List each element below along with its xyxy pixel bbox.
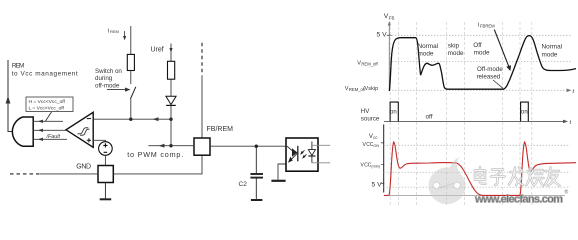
opto LED D3: [308, 142, 315, 163]
watermark logo: [429, 157, 466, 204]
leader line Off-mode released to curve: [493, 80, 503, 88]
svg-text:skip: skip: [448, 42, 460, 49]
5V label and tick: [377, 31, 392, 38]
VREM_on/Vskip label: [345, 86, 378, 92]
wire FB/REM to optocoupler: [210, 145, 286, 147]
VFB axis label: [384, 13, 395, 21]
annotation Normal mode 2: [542, 43, 563, 58]
svg-text:mode: mode: [542, 51, 558, 58]
svg-text:FB: FB: [389, 16, 395, 21]
wire gate middle input from comparator: [33, 129, 66, 132]
svg-text:5 V: 5 V: [377, 31, 388, 38]
svg-text:mode: mode: [474, 50, 490, 57]
annotation skip mode: [448, 42, 464, 57]
svg-text:cc: cc: [373, 135, 377, 140]
wire GND rail dashed left edge: [10, 173, 40, 175]
wire opto right pins: [312, 145, 330, 163]
dotted Vskip level / time axis with arrow: [389, 89, 574, 96]
svg-text:ON: ON: [373, 144, 379, 148]
wire feedback net solid to FB/REM: [201, 75, 203, 138]
resistor R2: [168, 61, 175, 79]
wire diode to minus line and down to PWM line: [170, 105, 172, 146]
junction dot Uref/minus: [169, 118, 172, 121]
capacitor C2: [250, 146, 263, 200]
annotation Off-mode released: [477, 66, 504, 80]
ground symbol opto: [271, 180, 285, 182]
wire resistor to diode: [170, 79, 172, 96]
HV baseline with arrow: [384, 120, 572, 126]
wire dashed feedback net: [201, 43, 203, 76]
gridlines: [390, 22, 532, 205]
svg-text:®: ®: [565, 189, 569, 196]
node REM label: [12, 63, 78, 78]
svg-text:www.elecfans.com: www.elecfans.com: [474, 193, 563, 205]
svg-text:Normal: Normal: [418, 43, 439, 50]
svg-text:FBREM: FBREM: [480, 24, 495, 29]
svg-text:off: off: [426, 114, 433, 121]
Vcc vertical axis: [383, 124, 385, 192]
dotted 5V level Vcc chart: [384, 186, 570, 188]
comparator plus pin: [87, 138, 91, 142]
svg-text:H = Vcc<Vcc_off: H = Vcc<Vcc_off: [29, 99, 66, 105]
VFB vertical axis: [388, 21, 391, 90]
wire comparator plus input: [93, 140, 105, 141]
svg-text:/Vskip: /Vskip: [363, 86, 378, 92]
watermark chinese text: [475, 167, 560, 186]
svg-text:5 V: 5 V: [372, 182, 383, 189]
svg-text:during: during: [95, 75, 113, 82]
Vcc axis label: [369, 134, 378, 140]
svg-text:C2: C2: [239, 181, 248, 188]
current source I1: [99, 142, 113, 156]
svg-text:Off: Off: [473, 42, 482, 49]
svg-text:to PWM comp.: to PWM comp.: [127, 150, 183, 159]
resistor R1: [127, 54, 134, 70]
wire gate top input: [33, 120, 63, 123]
svg-text:Uref: Uref: [151, 46, 164, 53]
junction dot C2: [255, 145, 258, 148]
dotted VREM_off level line: [389, 61, 572, 63]
VFB waveform: [389, 36, 576, 91]
svg-text:GND: GND: [76, 164, 91, 171]
svg-text:i: i: [108, 29, 109, 35]
svg-text:HV: HV: [361, 108, 370, 115]
svg-text:off-mode: off-mode: [95, 82, 120, 89]
wire resistor to switch: [130, 71, 132, 85]
light arrows: [300, 150, 306, 158]
ground symbol under GND block: [100, 183, 112, 200]
op-amp comparator U2: [66, 112, 93, 147]
VccON label: [363, 142, 380, 148]
wire switch to junction: [130, 99, 132, 119]
Vcc(min) label: [361, 163, 381, 169]
wire comparator minus input line: [93, 117, 171, 121]
dotted Vcc(min) level: [384, 171, 570, 173]
annotation Normal mode 1: [418, 43, 439, 58]
svg-text:REM: REM: [110, 29, 119, 34]
leader from comment box to wire: [46, 112, 52, 121]
svg-text:on: on: [390, 110, 397, 116]
opto photodiode D2: [287, 146, 298, 163]
Vcc time axis: [384, 195, 565, 197]
hysteresis symbol: [78, 128, 90, 135]
HV pulse 2: [521, 102, 529, 121]
node Uref label with arrow: [151, 44, 173, 54]
diode D1: [166, 96, 176, 105]
svg-text:to Vcc management: to Vcc management: [12, 70, 78, 77]
annotation switch on during off-mode: [95, 68, 131, 92]
svg-text:t: t: [570, 120, 572, 126]
junction dot iREM/minus: [129, 118, 132, 121]
wire iREM top: [130, 26, 132, 54]
switch S1 blade: [130, 87, 135, 99]
svg-text:/Fault: /Fault: [46, 134, 61, 140]
HV source label: [361, 108, 380, 122]
comment box Vcc thresholds: [26, 97, 73, 112]
junction dot Uref/PWM line: [169, 144, 172, 147]
annotation Off mode: [473, 42, 490, 57]
wire gate bottom input /Fault: [33, 138, 67, 141]
svg-text:FB/REM: FB/REM: [207, 126, 234, 133]
svg-text:mode: mode: [448, 50, 464, 57]
wire Uref to resistor: [170, 51, 172, 61]
svg-text:released: released: [477, 73, 501, 80]
arrow IFBREM to release point: [494, 30, 511, 72]
wire current source to GND block: [104, 155, 106, 165]
Vcc waveform red: [384, 142, 576, 196]
HV pulse 1: [390, 102, 398, 121]
FB/REM block: [194, 138, 210, 155]
svg-text:REM_off: REM_off: [361, 61, 378, 66]
svg-text:Off-mode: Off-mode: [477, 66, 503, 73]
wire GND rail: [40, 155, 202, 174]
GND block: [98, 166, 113, 183]
dotted 5V level line: [389, 34, 572, 36]
svg-text:t: t: [573, 89, 575, 95]
svg-text:Switch on: Switch on: [95, 68, 122, 75]
svg-text:mode: mode: [418, 50, 434, 57]
node iREM label with current arrow: [108, 29, 126, 41]
AND gate U1 (mirrored, inputs right): [12, 117, 33, 146]
node IFBREM label: [478, 23, 495, 29]
svg-text:on: on: [521, 110, 528, 116]
svg-text:L = Vcc>Vcc_off: L = Vcc>Vcc_off: [29, 106, 65, 112]
svg-text:(min): (min): [371, 165, 380, 169]
wire to PWM comparator with arrow: [148, 144, 194, 148]
VREM_off label: [357, 60, 378, 66]
wire opto LED cathode to ground: [278, 164, 286, 180]
dotted VccON level: [384, 144, 570, 146]
comparator minus pin: [87, 118, 91, 120]
optocoupler U3 box: [286, 138, 318, 171]
svg-text:source: source: [361, 115, 380, 122]
svg-text:Normal: Normal: [542, 43, 563, 50]
Vcc axis ticks: [381, 143, 384, 184]
svg-text:REM: REM: [12, 63, 24, 70]
wire REM output with up arrow: [6, 60, 13, 132]
